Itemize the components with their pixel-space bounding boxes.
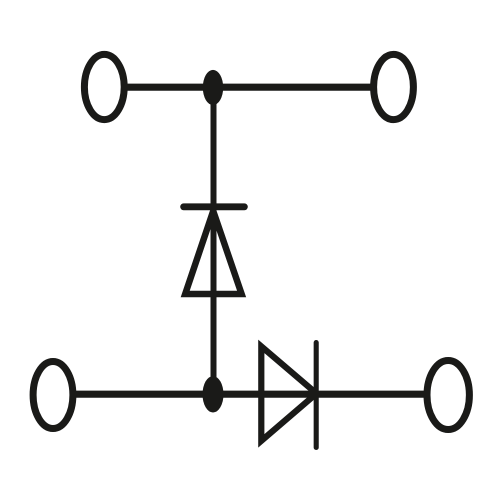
terminal: bottom-left contact point bbox=[33, 362, 73, 429]
terminal: top-right contact point bbox=[374, 54, 414, 119]
diode D2 triangle (horizontal diode on bottom rail, pointing right) bbox=[261, 346, 316, 441]
node: bottom junction dot bbox=[203, 376, 224, 412]
terminal: top-left contact point bbox=[84, 54, 124, 119]
diode D2 cathode bar (vertical line at right) bbox=[314, 343, 319, 448]
node: top junction dot bbox=[203, 70, 223, 105]
wire: bottom rail between left and right terminals bbox=[72, 391, 428, 398]
diode D1 cathode bar (vertical diode, cathode up) bbox=[184, 203, 245, 210]
wire: top rail between left and right terminals bbox=[123, 84, 375, 91]
terminal: bottom-right contact point bbox=[427, 361, 469, 430]
diode D1 triangle (anode, pointing up) bbox=[185, 211, 241, 294]
wire: vertical stem from top node through diode to bottom node bbox=[211, 87, 217, 394]
